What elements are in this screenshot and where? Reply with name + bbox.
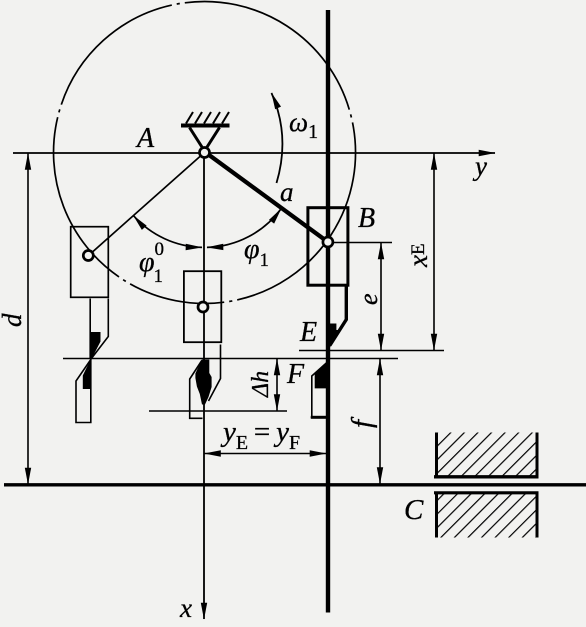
svg-text:E: E (299, 317, 317, 348)
svg-text:x: x (179, 593, 192, 623)
svg-text:a: a (280, 177, 294, 207)
svg-text:F: F (286, 359, 305, 390)
svg-text:xE: xE (403, 243, 433, 268)
svg-text:y: y (472, 151, 487, 181)
svg-text:e: e (354, 293, 383, 305)
svg-text:d: d (0, 313, 27, 327)
svg-text:Δh: Δh (248, 371, 274, 398)
svg-text:A: A (135, 123, 155, 154)
svg-text:C: C (404, 494, 424, 526)
svg-text:B: B (358, 203, 375, 234)
